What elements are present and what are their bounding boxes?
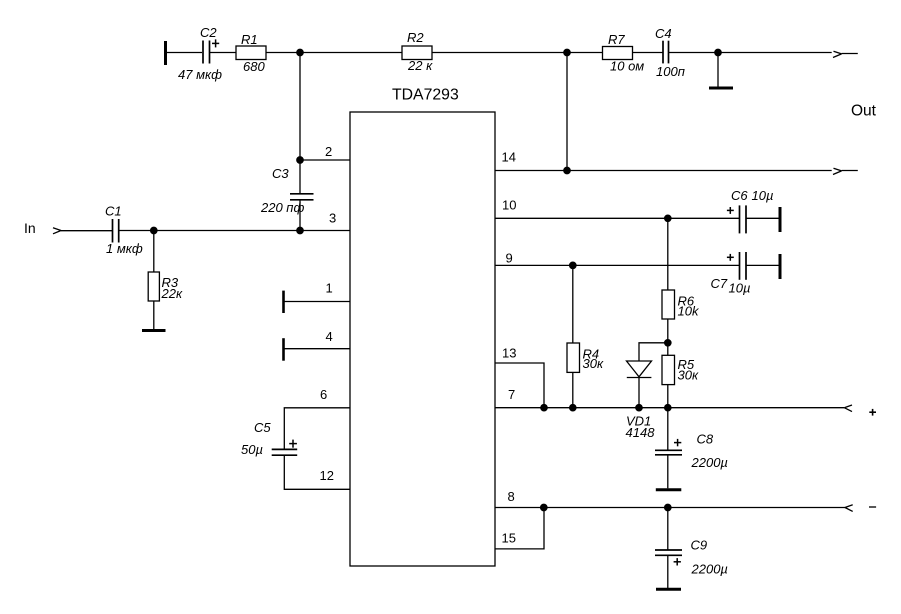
pin 4 open terminal	[284, 338, 351, 361]
wire	[61, 230, 113, 232]
capacitor C6 10µ	[727, 188, 774, 233]
pin 8 label	[508, 489, 515, 504]
node pin10/C8 branch	[665, 215, 671, 221]
capacitor C8 2200µ	[655, 432, 728, 490]
pin 14 label	[502, 149, 516, 164]
resistor R5 30к	[662, 343, 699, 408]
node VD1/pin7 junction	[636, 405, 642, 411]
pin 1 label	[326, 281, 333, 296]
capacitor C1 1 мкф	[105, 204, 143, 257]
ground (input)	[142, 329, 166, 332]
wire pin 7 (positive supply rail)	[495, 407, 844, 409]
svg-text:10µ: 10µ	[752, 188, 774, 203]
wire (node A down to C3)	[299, 53, 301, 194]
svg-text:C5: C5	[254, 420, 271, 435]
svg-text:C3: C3	[272, 166, 289, 181]
wire	[669, 52, 832, 54]
svg-text:C6: C6	[731, 188, 748, 203]
pin 12 label	[320, 468, 334, 483]
pin 7 label	[508, 387, 515, 402]
wire pin 13	[495, 363, 544, 408]
text + (supply)	[869, 409, 876, 416]
wire pin 14	[495, 170, 832, 172]
resistor R3 22к	[148, 231, 183, 331]
wire pin 6	[284, 408, 350, 450]
svg-text:2200µ: 2200µ	[691, 455, 728, 470]
wire (junction to diode anode)	[639, 343, 668, 361]
node R6/R5/VD1 junction	[665, 340, 671, 346]
wire	[746, 264, 779, 266]
text − (supply)	[869, 506, 876, 508]
svg-text:3: 3	[329, 211, 336, 226]
wire	[746, 217, 779, 219]
svg-text:C7: C7	[711, 276, 728, 291]
svg-text:1: 1	[326, 281, 333, 296]
svg-text:22 к: 22 к	[407, 58, 433, 73]
pin 13 label	[502, 346, 516, 361]
node pin9/R4 junction	[570, 262, 576, 268]
op-amp U1 TDA7293	[350, 87, 495, 567]
capacitor C9 2200µ	[655, 538, 728, 590]
svg-text:2200µ: 2200µ	[691, 561, 728, 576]
wire pin 9	[495, 264, 740, 266]
wire (node B down to pin 14)	[566, 53, 568, 171]
svg-text:9: 9	[506, 250, 513, 265]
arrow (+ supply)	[844, 405, 852, 412]
capacitor C7 10µ	[711, 252, 751, 296]
wire	[210, 52, 237, 54]
node pin13/pin7 junction	[541, 405, 547, 411]
wire pin 2	[300, 159, 350, 161]
svg-text:30к: 30к	[678, 368, 699, 383]
svg-text:10 ом: 10 ом	[610, 59, 644, 74]
svg-text:10µ: 10µ	[729, 281, 751, 296]
arrow (− supply)	[845, 505, 853, 512]
node pin3 junction	[297, 227, 303, 233]
capacitor C3 220 пф	[260, 166, 314, 215]
terminal bar (C7 right)	[779, 254, 782, 279]
pin 2 label	[325, 144, 332, 159]
svg-text:30к: 30к	[583, 356, 604, 371]
node C (output/ground junction)	[715, 49, 721, 55]
node R5/C8/pin7 junction	[665, 405, 671, 411]
wire	[432, 52, 602, 54]
pin 6 label	[320, 387, 327, 402]
wire pin 8 (negative supply rail)	[495, 507, 845, 509]
svg-text:12: 12	[320, 468, 334, 483]
resistor R2 22 к	[402, 30, 433, 73]
wire (C3 to pin 3 line)	[299, 200, 301, 231]
node pin2 junction	[297, 157, 303, 163]
diode VD1 4148	[626, 361, 656, 440]
svg-text:4148: 4148	[626, 425, 656, 440]
resistor R7 10 ом	[603, 32, 645, 74]
wire	[266, 52, 402, 54]
capacitor C4 100п	[655, 26, 685, 79]
capacitor C2 47 мкф	[178, 25, 222, 82]
node R4/pin7 junction	[570, 405, 576, 411]
resistor R1 680	[236, 32, 266, 74]
input arrow	[53, 228, 61, 234]
wire pin 10	[495, 217, 740, 219]
svg-text:13: 13	[502, 346, 516, 361]
ground (top right)	[709, 53, 733, 89]
pin 4 label	[326, 329, 333, 344]
text In	[24, 220, 36, 236]
svg-text:50µ: 50µ	[241, 442, 263, 457]
capacitor C5 50µ	[241, 420, 297, 457]
svg-text:C4: C4	[655, 26, 672, 41]
input terminal bar (left of C2)	[164, 41, 167, 65]
svg-text:8: 8	[508, 489, 515, 504]
svg-text:680: 680	[243, 59, 265, 74]
wire	[667, 319, 669, 343]
wire	[167, 52, 202, 54]
svg-text:R1: R1	[241, 32, 258, 47]
svg-text:C9: C9	[691, 538, 708, 553]
svg-text:R2: R2	[407, 30, 424, 45]
wire (pin7 down to C8)	[667, 408, 669, 450]
svg-text:1 мкф: 1 мкф	[106, 241, 143, 256]
wire (pin 3 line)	[119, 230, 350, 232]
svg-text:15: 15	[502, 530, 516, 545]
node A (R1/R2/C3 junction)	[297, 49, 303, 55]
svg-text:C1: C1	[105, 204, 122, 219]
svg-text:Out: Out	[851, 103, 877, 120]
output arrow (pin 14)	[833, 168, 858, 174]
svg-text:4: 4	[326, 329, 333, 344]
svg-text:47 мкф: 47 мкф	[178, 67, 222, 82]
node R3 junction	[151, 227, 157, 233]
svg-text:22к: 22к	[161, 286, 183, 301]
node pin15/pin8 junction	[541, 504, 547, 510]
svg-text:10: 10	[502, 197, 516, 212]
svg-text:R7: R7	[608, 32, 625, 47]
wire	[633, 52, 664, 54]
pin 10 label	[502, 197, 516, 212]
pin 1 open terminal	[284, 291, 351, 313]
svg-text:TDA7293: TDA7293	[392, 87, 459, 104]
node pin14 junction	[564, 167, 570, 173]
output arrow (top)	[833, 51, 858, 57]
node B (R2/R7/pin14 junction)	[564, 49, 570, 55]
wire pin 15	[495, 508, 544, 549]
resistor R6 10k	[662, 290, 700, 319]
wire (pin 10 branch down to R6)	[667, 218, 669, 290]
svg-text:In: In	[24, 220, 36, 236]
svg-text:C2: C2	[200, 25, 217, 40]
wire pin 12	[284, 455, 350, 489]
wire (pin8 down to C9)	[667, 508, 669, 550]
svg-text:6: 6	[320, 387, 327, 402]
svg-text:100п: 100п	[656, 64, 685, 79]
svg-text:7: 7	[508, 387, 515, 402]
svg-text:10k: 10k	[678, 304, 700, 319]
pin 9 label	[506, 250, 513, 265]
svg-text:14: 14	[502, 149, 516, 164]
svg-text:220 пф: 220 пф	[260, 200, 304, 215]
node C9/pin8 junction	[665, 504, 671, 510]
pin 3 label	[329, 211, 336, 226]
text Out	[851, 103, 877, 120]
svg-text:2: 2	[325, 144, 332, 159]
svg-text:C8: C8	[697, 432, 714, 447]
terminal bar (C6 right)	[779, 207, 782, 232]
pin 15 label	[502, 530, 516, 545]
resistor R4 30к	[567, 265, 604, 407]
